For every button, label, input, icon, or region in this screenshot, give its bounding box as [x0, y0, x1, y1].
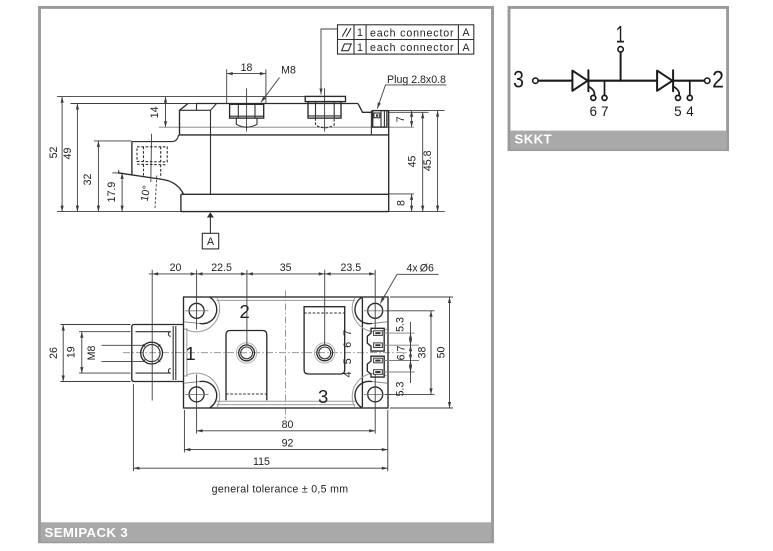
- dimension 52: [61, 97, 63, 212]
- terminal 4 circle: [687, 95, 692, 100]
- side terminal bolt (hidden, on 10deg face) centerline: [150, 134, 153, 182]
- tab hole chamfer ticks: [158, 344, 160, 346]
- terminal 7 circle: [602, 95, 607, 100]
- bolt 2 thread stud hidden: [316, 118, 335, 128]
- baseline extension right: [389, 211, 445, 213]
- svg-text:each connector: each connector: [370, 42, 454, 54]
- dimension 32: [97, 141, 99, 212]
- svg-text:each connector: each connector: [370, 28, 454, 40]
- top-left chamfer outer: [180, 104, 189, 135]
- bolt 1 thread stud: [236, 118, 257, 127]
- thyristor V2 gate lead: [674, 87, 680, 96]
- svg-text:SEMIPACK 3: SEMIPACK 3: [45, 525, 129, 540]
- wire to terminal 1: [620, 52, 622, 81]
- svg-text:7: 7: [601, 104, 609, 119]
- terminal 2 hole: [236, 343, 256, 363]
- svg-text:17.9: 17.9: [106, 182, 118, 203]
- left terminal tab outline: [132, 325, 184, 382]
- svg-text:7: 7: [342, 330, 354, 336]
- svg-text:4x Ø6: 4x Ø6: [407, 263, 435, 275]
- top-left shoulder line: [180, 109, 211, 111]
- parallelism symbol: [342, 28, 347, 36]
- svg-text:8: 8: [396, 200, 408, 206]
- control plug lower (pins 4,5): [367, 356, 384, 377]
- base plate left edge: [180, 194, 182, 211]
- left panel frame: [40, 7, 493, 541]
- auxiliary cathode lead 7: [604, 81, 606, 96]
- pin dimension 5.3 bottom: [410, 361, 412, 373]
- tolerance legend table: [338, 25, 474, 54]
- terminal block left edge: [131, 142, 133, 176]
- svg-text:A: A: [207, 236, 215, 248]
- body top edge right of plug: [387, 110, 389, 112]
- svg-text:A: A: [463, 42, 471, 54]
- right panel frame: [509, 7, 728, 149]
- tab hole: [141, 342, 163, 364]
- fillet flange to terminal: [173, 135, 179, 142]
- bottom dimension 115: [132, 384, 134, 471]
- bolt 1 centerline: [246, 88, 248, 131]
- thyristor V2 triangle: [657, 71, 672, 91]
- svg-text:38: 38: [417, 347, 429, 359]
- extension line body right top (45 ref): [389, 111, 429, 113]
- bottom dimension 80: [197, 430, 376, 432]
- slope end stub: [118, 170, 120, 173]
- plug recess wall: [370, 111, 372, 135]
- bottom dimension 92: [183, 410, 185, 452]
- side bolt thread hidden: [143, 164, 145, 176]
- lid inner bottom line: [217, 400, 356, 402]
- extension line plug top (45.8 ref): [387, 110, 445, 112]
- pin dimension 6.7: [410, 345, 412, 360]
- svg-text:Plug 2.8x0.8: Plug 2.8x0.8: [387, 74, 446, 86]
- pin 7 contact: [374, 331, 383, 336]
- module body outline: [184, 297, 389, 408]
- terminal block top: [132, 141, 173, 143]
- datum stem: [209, 218, 211, 234]
- dimension 49: [76, 104, 78, 212]
- pin dimension 5.3 top: [410, 322, 412, 383]
- svg-text:18: 18: [241, 62, 253, 74]
- dimension 45: [422, 112, 424, 211]
- svg-text:35: 35: [280, 262, 292, 274]
- svg-text:4: 4: [686, 104, 694, 119]
- thyristor V1 gate lead: [589, 87, 595, 96]
- bolt 2 hex nut: [308, 102, 341, 119]
- svg-text:6: 6: [342, 342, 354, 348]
- right panel footer bar: [511, 131, 727, 150]
- svg-text:32: 32: [82, 174, 94, 186]
- right dimension 38: [386, 310, 435, 312]
- flange bottom line: [179, 134, 389, 136]
- svg-text:80: 80: [282, 419, 294, 431]
- svg-text:2: 2: [712, 67, 724, 94]
- corner boss bottom-left: [200, 381, 217, 407]
- terminal 2 circle: [705, 78, 710, 83]
- top dimension chain 20 / 22.5 / 35 / 23.5: [151, 270, 153, 401]
- thyristor V1 cathode bar: [587, 70, 589, 91]
- svg-text:5.3: 5.3: [395, 317, 407, 332]
- dimension 7: [411, 111, 413, 127]
- extension line module top (49 ref): [71, 103, 198, 105]
- svg-text:115: 115: [253, 456, 270, 468]
- svg-text:22.5: 22.5: [211, 262, 232, 274]
- svg-text:19: 19: [66, 346, 78, 358]
- svg-text:1: 1: [357, 27, 363, 39]
- svg-text:M8: M8: [281, 65, 296, 77]
- pin 6 contact: [374, 343, 383, 348]
- plug body: [373, 111, 387, 128]
- datum A box: [202, 233, 218, 249]
- mounting hole top-right: [368, 303, 383, 318]
- corner boss bottom-right: [355, 381, 372, 407]
- tab metal strip edges: [136, 331, 171, 333]
- dimension 17.9: [121, 173, 123, 212]
- thyristor V1 triangle: [572, 71, 587, 91]
- svg-text:92: 92: [282, 437, 294, 449]
- svg-text:4: 4: [342, 371, 354, 377]
- control plug upper (pins 6,7): [367, 328, 384, 351]
- svg-text:50: 50: [436, 347, 448, 359]
- short edge at chamfer: [196, 104, 198, 111]
- svg-text:20: 20: [170, 262, 182, 274]
- corner boss top-right: [355, 297, 372, 323]
- tab-body junction lines: [172, 326, 174, 380]
- strip end notches: [168, 332, 170, 337]
- extension line base top (8 ref): [389, 193, 414, 195]
- top-left chamfer inner: [211, 104, 217, 195]
- main wire node 3 to node 2: [538, 80, 705, 82]
- svg-text:general tolerance ± 0,5 mm: general tolerance ± 0,5 mm: [212, 484, 349, 496]
- body right edge: [388, 111, 390, 212]
- svg-text:7: 7: [395, 116, 407, 122]
- bolt 2 centerline: [324, 88, 326, 131]
- extension line slope end (17.9 ref): [112, 172, 121, 174]
- auxiliary cathode lead 4: [689, 81, 691, 96]
- svg-text:26: 26: [48, 347, 60, 359]
- svg-text:3: 3: [318, 386, 328, 407]
- connector bay wall: [361, 298, 363, 407]
- svg-text:5: 5: [342, 358, 354, 364]
- svg-text:A: A: [463, 27, 471, 39]
- top-right chamfer: [358, 104, 371, 113]
- flatness symbol: [342, 44, 352, 51]
- svg-text:2: 2: [240, 301, 250, 322]
- datum A triangle: [207, 212, 214, 217]
- mounting hole bottom-right: [368, 387, 383, 402]
- internal seat line (14/7 ref): [159, 126, 414, 128]
- base plate top: [181, 193, 389, 195]
- left panel footer bar: [41, 522, 491, 542]
- 10deg reference line: [155, 176, 157, 209]
- pin 5 contact: [374, 358, 383, 363]
- svg-text:49: 49: [62, 148, 74, 160]
- terminal 3 pad: [304, 307, 345, 374]
- body horizontal centerline: [123, 352, 409, 354]
- svg-text:3: 3: [513, 67, 524, 94]
- side bolt washer hidden: [137, 163, 167, 166]
- svg-text:1: 1: [616, 22, 625, 49]
- legend leader to connector plate: [321, 29, 338, 91]
- extension line top of connector plates (52 ref): [57, 96, 345, 98]
- terminal 1 circle: [618, 47, 623, 52]
- svg-text:52: 52: [48, 147, 60, 159]
- lid inset outline: [217, 299, 356, 301]
- terminal 2 pad hidden line: [226, 393, 267, 395]
- gate terminal 5 circle: [676, 95, 681, 100]
- right dimension 50: [390, 296, 453, 298]
- terminal 3 hole: [315, 343, 335, 363]
- gate terminal 6 circle: [591, 95, 596, 100]
- sloped bottom surface 10deg: [119, 173, 184, 194]
- svg-text:6: 6: [589, 104, 597, 119]
- svg-text:SKKT: SKKT: [515, 131, 553, 146]
- svg-text:14: 14: [149, 106, 161, 118]
- left dimension 26: [61, 324, 131, 326]
- left dimension 19: [79, 331, 131, 333]
- svg-text:1: 1: [185, 343, 195, 364]
- svg-text:45.8: 45.8: [422, 150, 434, 171]
- body vertical centerline: [285, 291, 287, 420]
- base plate bottom (mounting surface): [181, 211, 389, 213]
- baseline extension left: [57, 211, 181, 213]
- terminal 3 circle: [533, 78, 538, 83]
- bolt 2 connector plate: [305, 96, 345, 101]
- terminal 3 pad hidden line: [304, 312, 345, 314]
- dimension 8: [411, 194, 413, 212]
- right pin dimension extension lines: [382, 332, 415, 334]
- mounting hole top-left: [189, 303, 204, 318]
- svg-text:M8: M8: [86, 346, 98, 361]
- mounting hole bottom-left: [189, 387, 204, 402]
- module top edge: [196, 103, 358, 105]
- dimension 45.8: [437, 111, 439, 212]
- svg-text:5: 5: [674, 104, 682, 119]
- svg-text:6.7: 6.7: [396, 346, 408, 361]
- svg-text:1: 1: [357, 42, 363, 54]
- pin 4 contact: [374, 370, 383, 375]
- extension line terminal top (32 ref): [94, 140, 132, 142]
- svg-text:45: 45: [407, 156, 419, 168]
- corner boss top-left: [200, 297, 217, 323]
- side bolt hex head hidden: [137, 147, 167, 162]
- bolt 1 hex nut: [230, 104, 264, 118]
- dimension 14: [165, 97, 167, 128]
- thyristor V2 cathode bar: [672, 70, 674, 91]
- terminal 2 pad: [226, 331, 267, 401]
- plug contact box: [374, 113, 380, 118]
- dimension 18: [226, 69, 228, 103]
- svg-text:23.5: 23.5: [340, 262, 361, 274]
